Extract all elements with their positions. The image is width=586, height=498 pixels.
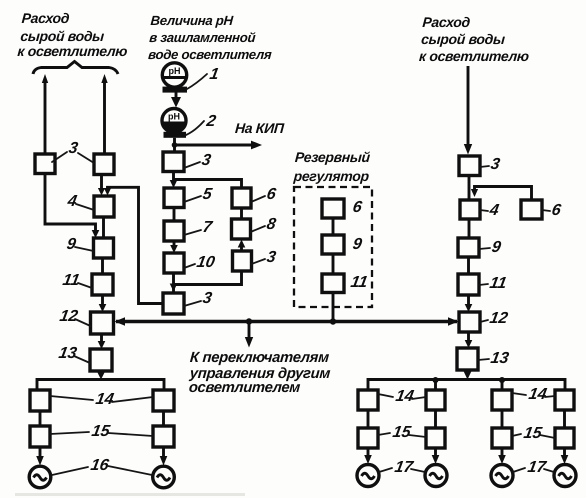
node: junction before KIP bbox=[172, 142, 178, 148]
svg-text:9: 9 bbox=[65, 235, 77, 253]
svg-text:7: 7 bbox=[201, 218, 214, 236]
node: junction col2 bbox=[433, 377, 439, 383]
wire: 15f to motor arrow bbox=[561, 448, 569, 464]
svg-text:Расход: Расход bbox=[422, 14, 471, 30]
motor circle 17c bbox=[491, 465, 513, 487]
svg-text:рН: рН bbox=[169, 66, 181, 76]
svg-text:4: 4 bbox=[65, 192, 78, 210]
box RC9 bbox=[458, 238, 479, 257]
label 2 bbox=[186, 112, 217, 135]
motor circle 17b bbox=[425, 465, 447, 487]
svg-text:3: 3 bbox=[201, 289, 213, 307]
box B15c bbox=[358, 428, 378, 448]
wire: RC13 to right distribution arrow bbox=[464, 370, 472, 380]
wire: R6 to R9 bbox=[332, 218, 335, 235]
wire: RC12 to RC13 arrow bbox=[465, 332, 473, 348]
box R11 bbox=[322, 274, 344, 293]
svg-text:14: 14 bbox=[394, 387, 415, 405]
label 6 (right) bbox=[542, 201, 563, 219]
wire: RC3 to RC4 bbox=[468, 176, 471, 201]
wire: 14f to 15f bbox=[563, 410, 566, 428]
label 14 (right pair 1) bbox=[378, 387, 426, 405]
bottom scan smudge bbox=[15, 493, 245, 496]
annotation: to switches text bbox=[187, 350, 332, 396]
label 17 (right pair 1) bbox=[379, 458, 425, 476]
svg-text:сырой воды: сырой воды bbox=[20, 28, 105, 44]
svg-text:к осветлителю: к осветлителю bbox=[419, 48, 530, 64]
wire: RC6 around to RC4 arrow bbox=[471, 187, 532, 201]
box M10 bbox=[164, 253, 184, 273]
wire: 15e to motor arrow bbox=[498, 448, 506, 464]
node: bus junction reserve bbox=[330, 318, 336, 324]
wire: M7 to M10 arrow bbox=[170, 241, 178, 253]
label 15 (right pair 1) bbox=[378, 423, 426, 441]
box L4 bbox=[94, 196, 114, 217]
box L13 bbox=[90, 349, 112, 371]
box R9 bbox=[322, 235, 344, 254]
wire: L4 to L9 bbox=[102, 217, 105, 238]
label 11 (right) bbox=[479, 274, 508, 292]
label 12 (right) bbox=[480, 309, 509, 327]
svg-text:9: 9 bbox=[351, 235, 363, 253]
box RC12 bbox=[459, 312, 480, 332]
svg-text:9: 9 bbox=[490, 238, 502, 256]
annotation: right flow text bbox=[419, 14, 532, 64]
annotation: middle pH text bbox=[148, 13, 275, 62]
box L12 bbox=[91, 312, 114, 334]
box B14c bbox=[358, 390, 378, 410]
motor circle 16b bbox=[153, 466, 175, 488]
box M5 bbox=[164, 188, 184, 208]
svg-text:14: 14 bbox=[527, 385, 548, 403]
box S6 bbox=[232, 188, 251, 208]
wire: M3t to M5 with branch to S6 bbox=[170, 172, 242, 189]
wire: RC9 to RC11 bbox=[467, 257, 470, 274]
svg-text:6: 6 bbox=[351, 198, 364, 216]
svg-text:3: 3 bbox=[200, 151, 212, 169]
box B15a bbox=[30, 426, 50, 447]
svg-text:15: 15 bbox=[90, 422, 112, 440]
label 3 (left pair) bbox=[52, 139, 94, 163]
wire: 15b to motor arrow bbox=[160, 447, 168, 466]
wire: L3a to L9 bbox=[45, 174, 99, 239]
box M7 bbox=[164, 221, 184, 241]
label 5 bbox=[184, 185, 214, 203]
box B14d bbox=[426, 390, 445, 410]
svg-text:На КИП: На КИП bbox=[234, 120, 285, 136]
box L3b bbox=[94, 154, 114, 175]
annotation: left flow text bbox=[17, 10, 130, 59]
instrument circle 1 (pH sensor) bbox=[162, 63, 187, 93]
svg-text:6: 6 bbox=[550, 201, 563, 219]
svg-text:3: 3 bbox=[265, 248, 277, 266]
label 11 bbox=[61, 271, 92, 289]
bus line bbox=[115, 317, 459, 325]
svg-text:12: 12 bbox=[58, 307, 79, 325]
wire: 14b to 15b bbox=[162, 411, 165, 426]
svg-text:14: 14 bbox=[94, 390, 115, 408]
svg-text:11: 11 bbox=[349, 273, 369, 291]
label 15 (left) bbox=[50, 422, 153, 440]
svg-text:6: 6 bbox=[265, 185, 278, 203]
box RC4 bbox=[460, 200, 480, 219]
node: bus junction to other clarifier bbox=[246, 318, 252, 324]
svg-text:Величина рН: Величина рН bbox=[150, 13, 234, 28]
svg-text:К переключателям: К переключателям bbox=[189, 350, 329, 366]
svg-text:5: 5 bbox=[201, 185, 214, 203]
wire: left measurement drop 2 bbox=[101, 74, 107, 154]
annotation: reserve regulator bbox=[292, 149, 371, 184]
svg-text:10: 10 bbox=[195, 253, 216, 271]
box B14e bbox=[492, 390, 512, 410]
box RC11 bbox=[458, 274, 479, 295]
wire: arrow to KIP bbox=[175, 141, 263, 150]
label 7 bbox=[184, 218, 214, 236]
wire: from M3b up-around into L4 bbox=[104, 187, 163, 303]
wire: 14c to 15c bbox=[367, 410, 370, 428]
wire: drop col2 bbox=[434, 380, 437, 391]
wire: 15a to motor arrow bbox=[36, 447, 44, 466]
label 10 bbox=[184, 253, 216, 271]
label 3 (sub) bbox=[252, 248, 278, 266]
svg-text:сырой воды: сырой воды bbox=[421, 31, 506, 47]
label 3 (middle bottom) bbox=[184, 289, 213, 307]
wire: L9 to L11 bbox=[101, 258, 104, 274]
wire: L12 to L13 arrow bbox=[98, 334, 106, 349]
label 4 bbox=[65, 192, 94, 210]
wire: L3b to L4 arrow bbox=[98, 175, 105, 196]
svg-text:15: 15 bbox=[391, 423, 413, 441]
svg-text:осветлителем: осветлителем bbox=[188, 380, 301, 396]
box B14f bbox=[555, 390, 574, 410]
box B14b bbox=[153, 390, 174, 411]
motor circle 17d bbox=[554, 465, 576, 487]
label 17 (right pair 2) bbox=[513, 458, 554, 476]
label 12 bbox=[58, 307, 90, 326]
label 14 (right pair 2) bbox=[512, 385, 555, 403]
svg-text:к осветлителю: к осветлителю bbox=[17, 43, 128, 59]
svg-text:3: 3 bbox=[489, 155, 501, 173]
label 1 bbox=[187, 65, 220, 89]
box B14a bbox=[30, 390, 50, 411]
instrument circle 2 (pH sensor) bbox=[162, 109, 186, 138]
wire: RC11 to RC12 arrow bbox=[465, 295, 473, 312]
label 4 (right) bbox=[480, 201, 500, 219]
box B15b bbox=[153, 426, 174, 447]
wire: L11 to L12 arrow bbox=[99, 295, 107, 312]
label 14 (left) bbox=[50, 390, 153, 408]
svg-text:Расход: Расход bbox=[21, 10, 70, 26]
svg-text:13: 13 bbox=[57, 344, 78, 362]
wire: 15c to motor arrow bbox=[364, 448, 372, 464]
motor circle 16a bbox=[29, 466, 51, 488]
svg-text:1: 1 bbox=[208, 65, 220, 83]
wire: R9 to R11 bbox=[332, 254, 335, 274]
wire: S3 to S8 arrow up bbox=[238, 240, 246, 252]
svg-text:воде осветлителя: воде осветлителя bbox=[148, 47, 273, 62]
wire: drop col3 bbox=[501, 380, 504, 391]
wire: R11 down to bus bbox=[332, 293, 335, 322]
svg-text:17: 17 bbox=[526, 458, 548, 476]
svg-text:регулятор: регулятор bbox=[292, 168, 370, 184]
wire: 14e to 15e bbox=[501, 410, 504, 428]
box RC13 bbox=[457, 348, 478, 370]
svg-text:рН: рН bbox=[168, 112, 180, 122]
svg-text:2: 2 bbox=[204, 112, 217, 130]
label 9 (right) bbox=[479, 238, 502, 256]
box RC3 bbox=[459, 156, 480, 176]
wire: arrow down to other clarifier switches bbox=[245, 322, 253, 348]
wire: sensor1 to sensor2 arrow bbox=[171, 92, 181, 108]
box B15d bbox=[426, 428, 445, 448]
wire: 15d to motor arrow bbox=[432, 448, 440, 464]
brace under left text bbox=[33, 62, 118, 75]
svg-text:15: 15 bbox=[522, 424, 544, 442]
label 3 (middle top) bbox=[184, 151, 212, 169]
label 3 (right) bbox=[480, 155, 501, 173]
wire: sensor2 down to box M3t bbox=[173, 138, 176, 152]
label 13 (right) bbox=[478, 349, 510, 367]
box S3 bbox=[233, 251, 252, 271]
wire: 14a to 15a bbox=[39, 411, 42, 426]
svg-text:12: 12 bbox=[488, 309, 509, 327]
dashed reserve box bbox=[294, 187, 372, 307]
svg-text:в зашламленной: в зашламленной bbox=[149, 30, 256, 45]
wire: left measurement drop 1 bbox=[42, 74, 48, 154]
svg-text:17: 17 bbox=[393, 458, 415, 476]
svg-text:11: 11 bbox=[488, 274, 508, 292]
box L3a bbox=[35, 154, 55, 174]
box RC6 bbox=[521, 200, 542, 219]
wire: 14d to 15d bbox=[434, 410, 437, 428]
label 9 bbox=[65, 235, 93, 253]
svg-text:11: 11 bbox=[61, 271, 81, 289]
svg-text:16: 16 bbox=[89, 456, 111, 474]
box S8 bbox=[232, 219, 251, 239]
box B15e bbox=[492, 428, 512, 448]
box L9 bbox=[94, 238, 114, 258]
box M3b bbox=[163, 293, 184, 314]
box M3t bbox=[163, 152, 184, 172]
node: junction col3 bbox=[499, 377, 505, 383]
svg-text:8: 8 bbox=[265, 215, 277, 233]
label 16 bbox=[52, 456, 152, 475]
wire: RC4 to RC9 bbox=[468, 219, 471, 238]
label 6 (sub) bbox=[251, 185, 278, 203]
box L11 bbox=[92, 274, 113, 295]
wire: M10 to M3b with branch from S3 bbox=[170, 271, 242, 293]
label 8 (sub) bbox=[251, 215, 278, 233]
label 15 (right pair 2) bbox=[512, 424, 555, 442]
svg-text:Резервный: Резервный bbox=[294, 149, 371, 165]
wire: left distribution line bbox=[37, 380, 164, 391]
wire: L13 to left distribution with arrow bbox=[97, 371, 105, 380]
motor circle 17a bbox=[357, 465, 379, 487]
svg-text:13: 13 bbox=[489, 349, 510, 367]
wire: right measurement arrow down bbox=[464, 66, 472, 155]
svg-text:4: 4 bbox=[487, 201, 500, 219]
wire: S6 to S8 bbox=[240, 208, 243, 219]
svg-text:3: 3 bbox=[67, 139, 79, 157]
wire: right distribution line bbox=[368, 380, 565, 391]
wire: M5 to M7 bbox=[173, 208, 176, 222]
box R6 bbox=[322, 199, 344, 218]
box B15f bbox=[555, 428, 574, 448]
label 13 bbox=[57, 344, 90, 363]
